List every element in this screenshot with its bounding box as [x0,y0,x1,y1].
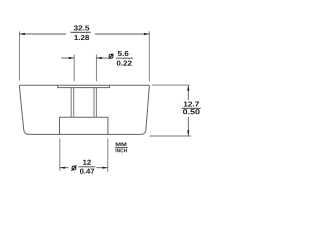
dim 32.5 dimension line [19,33,149,35]
dim 5.6 arrows [69,57,74,59]
dim 5.6 diameter symbol [109,54,114,59]
dim 12.7 arrows [187,85,189,90]
knob body outline [19,85,149,134]
dim 32.5 extension lines [19,31,149,81]
dim 32.5 arrows [19,33,24,35]
shaft wall lines [71,88,96,117]
dim 5.6 dimension line stubs [61,57,107,59]
dim 12 dimension line stubs [60,167,108,169]
dim 32.5 text [74,25,90,40]
dim 12 text [80,160,94,174]
dim 12 diameter symbol [71,165,76,171]
dim 12.7 extension lines [150,85,192,136]
dim 12 extension lines [60,138,108,171]
dim 5.6 extension lines [74,55,96,82]
boss rectangle [60,117,108,134]
dim 12 arrows [60,167,65,169]
dim 5.6 text [117,51,132,66]
dim 12.7 text [183,101,200,114]
top recess edge [58,85,110,87]
dim 12.7 dimension line [187,85,189,135]
legend MM/INCH [116,143,127,153]
